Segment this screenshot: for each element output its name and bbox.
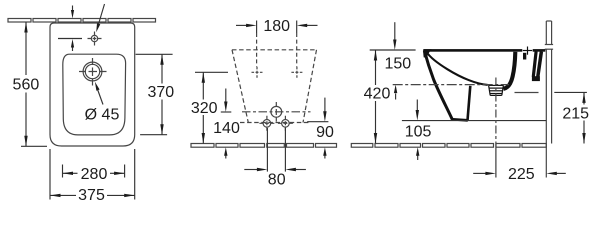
dimension 90 extension line [307, 121, 328, 123]
water connection circle left [263, 120, 271, 128]
water connection circle right [282, 120, 290, 128]
leader line to tap hole [98, 4, 105, 28]
bidet top rim (section) [424, 49, 546, 52]
bidet front outer edge (section) [424, 51, 452, 120]
drain hole Ø45 (double circle) [83, 62, 102, 81]
dimension 280 [63, 172, 78, 174]
drain vertical centerline [495, 78, 497, 148]
dimension 105 (outside arrows) [416, 100, 418, 112]
dimension 420 [375, 50, 377, 85]
dimension 150 (outside arrows) [394, 22, 396, 41]
dimension 370 extension lines [136, 53, 173, 55]
dimension 215 extension line (top) [554, 91, 587, 93]
drain centerlines (cross) [79, 71, 107, 73]
dimension 90 (outside arrows) [324, 98, 326, 113]
rear deck curve (section) [504, 52, 516, 89]
small unlabeled dimension arrow below hole line [72, 47, 74, 51]
bowl interior curve [427, 52, 488, 85]
dashed body outline (rear view trapezoid) [232, 49, 317, 51]
floor line (segmented band, middle view) [191, 144, 337, 148]
svg-text:280: 280 [81, 166, 108, 183]
dimension 80 (outside arrows) [244, 169, 259, 171]
bidet front nose [423, 49, 431, 58]
dimension 420 extension line (top) [370, 49, 416, 51]
svg-text:150: 150 [384, 56, 411, 73]
wall (side view, double line with break) [545, 21, 547, 45]
rear bowl inner lip [523, 52, 526, 60]
svg-text:215: 215 [562, 105, 589, 122]
dimension 375 extension lines [49, 149, 51, 200]
drain trap ribs (section) [489, 85, 504, 95]
drain circle (rear view) [271, 106, 282, 117]
dimension 105 extension line [402, 120, 546, 122]
dimension 80 extension lines [266, 128, 268, 172]
tap hole centerlines [88, 38, 102, 40]
dimension 320 [202, 72, 204, 99]
dimension 560 extension line (bottom) [21, 145, 47, 147]
tap/fixing hole (plan) [91, 35, 97, 41]
svg-text:90: 90 [316, 124, 334, 141]
dimension 560 [25, 22, 27, 75]
bidet leg back edge [468, 86, 471, 121]
fixing hole cross (left) [252, 71, 263, 73]
dimension 280 extension lines [62, 165, 64, 178]
svg-text:370: 370 [147, 84, 174, 101]
svg-text:105: 105 [405, 124, 432, 141]
dimension 225 left extension (drain axis below floor) [495, 147, 497, 177]
dimension 140 extension line (drain level) [221, 111, 232, 113]
back wall of bidet inner edge (section) [533, 52, 536, 77]
bidet outer rim outline (plan) [50, 23, 135, 146]
dimension 225 (outside arrows) [473, 172, 487, 174]
bidet inner bowl outline (plan) [63, 54, 126, 135]
svg-text:225: 225 [508, 166, 535, 183]
dimension 370 [161, 54, 163, 83]
floor line (segmented band, side view) [351, 144, 546, 148]
dimension 375 [50, 194, 76, 196]
dimension 215 [583, 92, 585, 104]
back wall foot [532, 76, 540, 81]
dimension 180 (outside arrows) [236, 24, 248, 26]
svg-text:320: 320 [191, 100, 218, 117]
svg-text:420: 420 [364, 86, 391, 103]
leader line from Ø45 label to drain [96, 86, 103, 105]
dimension 320 extension line (top) [195, 71, 228, 73]
svg-text:560: 560 [13, 76, 40, 93]
tap hole extension line [58, 38, 82, 40]
svg-text:Ø 45: Ø 45 [85, 106, 120, 123]
bidet leg bottom edge [451, 119, 468, 120]
wall line (plan view, segmented masonry band) [8, 19, 156, 23]
fixing hole cross (right) [291, 71, 302, 73]
svg-text:180: 180 [263, 18, 290, 35]
bottom face line [515, 92, 539, 94]
svg-text:80: 80 [268, 171, 286, 188]
dimension 140 (outside arrows) [225, 89, 227, 104]
drain axis centerline (horizontal) [393, 84, 509, 86]
back wall of bidet outer edge (section) [538, 52, 542, 77]
svg-text:140: 140 [213, 120, 240, 137]
dimension 180 extension lines [256, 21, 258, 34]
fixing bolt cross (white notch in rim + cross ticks) [522, 48, 532, 53]
small unlabeled dimension at wall (arrow above wall) [72, 6, 74, 11]
svg-text:375: 375 [78, 187, 105, 204]
